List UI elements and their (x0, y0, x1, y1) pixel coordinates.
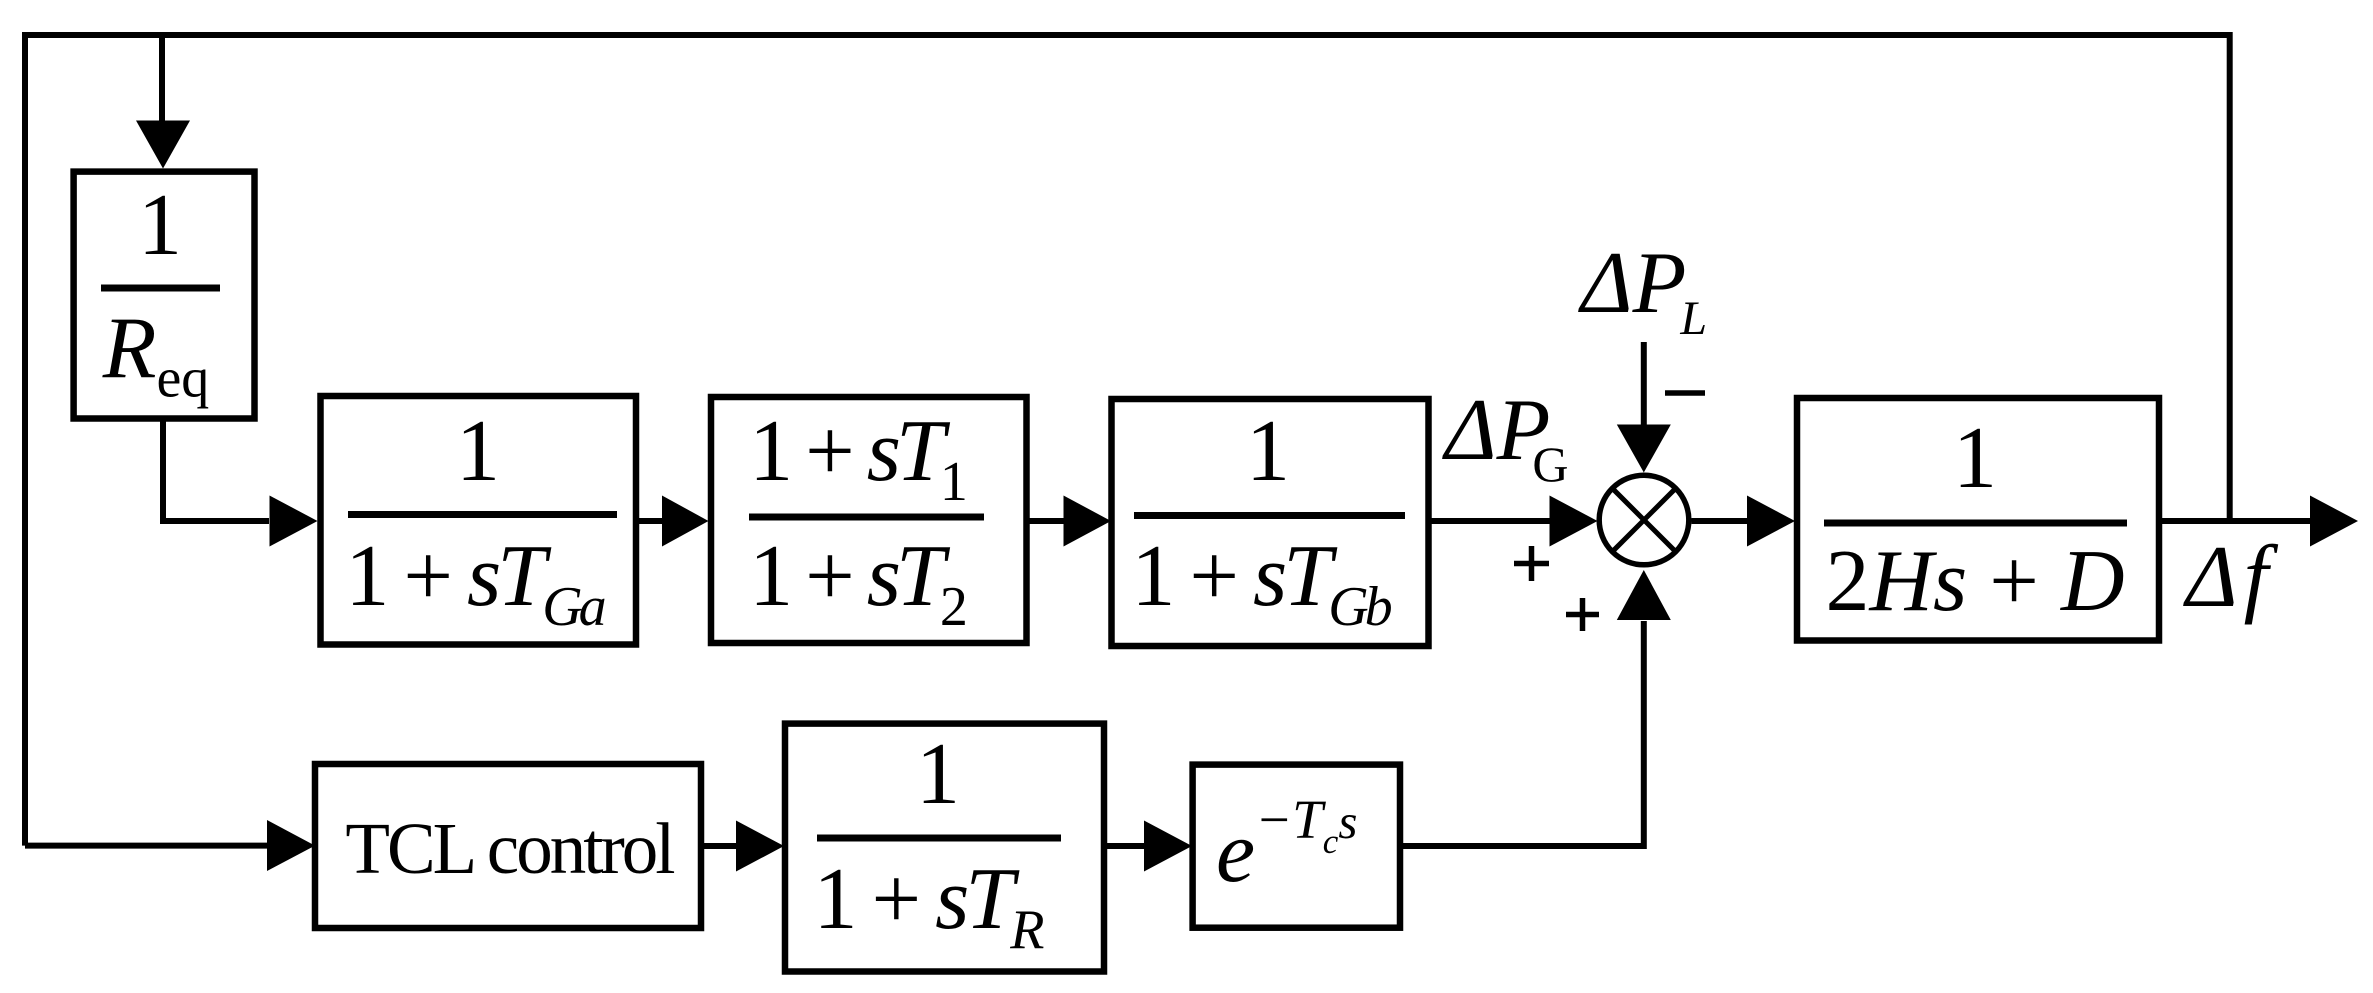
summing junction X diagonal 2 (1612, 488, 1675, 551)
svg-text:1: 1 (456, 403, 500, 500)
block B (1+sT1)/(1+sT2) (711, 397, 1027, 643)
svg-text:ΔPG: ΔPG (1442, 382, 1569, 492)
arrowhead into summing junction from top (1617, 425, 1671, 473)
sign minus (for dPL) (1665, 390, 1705, 396)
output arrowhead (2310, 496, 2358, 547)
arrowhead into 1/Req (136, 121, 190, 169)
wire C to summing junction (1429, 518, 1551, 524)
wire D to output (2159, 518, 2311, 524)
svg-text:1: 1 (1246, 403, 1290, 500)
wire F right then up into summing junction (1400, 621, 1644, 846)
block D 1/(2Hs+D) (1797, 398, 2159, 641)
svg-text:1: 1 (138, 177, 182, 274)
svg-text:2Hs + D: 2Hs + D (1826, 533, 2125, 630)
sign plus (for TCL path) (1566, 612, 1599, 618)
wire E to F (1104, 843, 1144, 849)
arrowhead into block B (662, 496, 709, 547)
block A 1/(1+sTGa) (321, 396, 637, 645)
arrowhead into block E (736, 821, 784, 872)
wire A to B (636, 518, 662, 524)
block E 1/(1+sTR) (785, 724, 1104, 972)
svg-text:1 + sT1: 1 + sT1 (749, 403, 965, 513)
wire branch down from top line into 1/Req (159, 35, 165, 121)
svg-text:1: 1 (916, 726, 960, 823)
arrowhead into summing junction from left (1550, 496, 1598, 547)
summing junction circle (1599, 475, 1689, 565)
wire dPL down into summing junction (1641, 342, 1647, 425)
wire feedback loop: left vertical, top horizontal, right vertical (25, 35, 2230, 846)
wire from 1/Req down and right to governor block (163, 419, 269, 522)
wire into TCL control (25, 843, 267, 849)
arrowhead into TCL control (267, 820, 315, 871)
svg-text:Δf: Δf (2183, 529, 2279, 626)
svg-text:TCL control: TCL control (345, 808, 674, 889)
block 1/Req (74, 172, 255, 419)
sign plus (for dPG) (1514, 561, 1549, 567)
arrowhead into summing junction from bottom (1617, 570, 1671, 620)
arrowhead into block D (1747, 496, 1795, 547)
svg-text:1 + sTR: 1 + sTR (813, 851, 1044, 961)
block C 1/(1+sTGb) (1112, 399, 1429, 646)
arrowhead into block F (1144, 821, 1192, 872)
summing junction X diagonal 1 (1612, 488, 1675, 551)
fraction bar of 1/Req (101, 285, 220, 292)
arrowhead into block A (270, 496, 318, 547)
svg-text:1 + sT2: 1 + sT2 (749, 528, 965, 638)
arrowhead into block C (1064, 496, 1112, 547)
block F exp(-Tc s) (1193, 765, 1400, 928)
block TCL control (315, 764, 701, 928)
wire TCL to E (701, 843, 736, 849)
svg-text:1: 1 (1953, 410, 1997, 507)
wire B to C (1027, 518, 1064, 524)
wire junction to block D (1692, 518, 1748, 524)
